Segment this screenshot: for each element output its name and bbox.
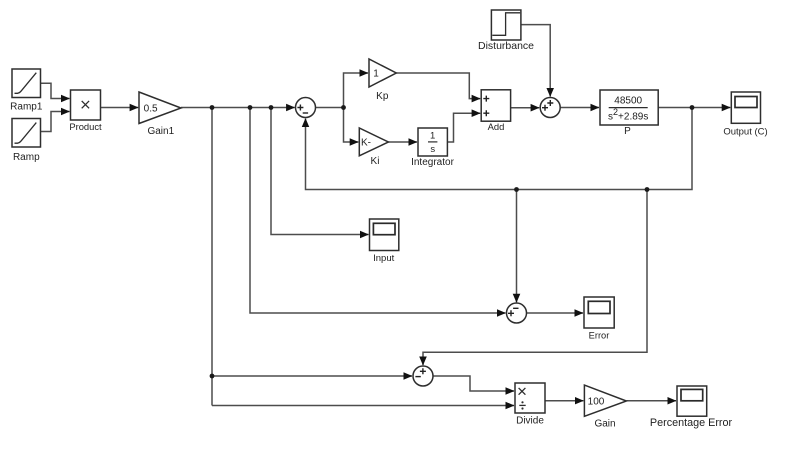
svg-text:Output (C): Output (C) bbox=[723, 126, 767, 137]
svg-text:Divide: Divide bbox=[516, 415, 544, 426]
svg-text:Product: Product bbox=[69, 121, 102, 132]
svg-text:Add: Add bbox=[488, 121, 505, 132]
svg-text:1: 1 bbox=[430, 131, 435, 142]
svg-text:Ki: Ki bbox=[371, 156, 380, 167]
svg-text:Percentage Error: Percentage Error bbox=[650, 417, 733, 429]
svg-text:Input: Input bbox=[373, 253, 394, 264]
svg-text:Kp: Kp bbox=[376, 91, 389, 102]
svg-text:Ramp: Ramp bbox=[13, 152, 40, 163]
svg-text:P: P bbox=[624, 126, 631, 137]
svg-text:Ramp1: Ramp1 bbox=[10, 101, 43, 112]
svg-text:Gain: Gain bbox=[594, 419, 615, 430]
svg-text:0.5: 0.5 bbox=[144, 103, 158, 114]
svg-text:48500: 48500 bbox=[614, 96, 642, 107]
svg-text:Integrator: Integrator bbox=[411, 157, 454, 168]
svg-text:K-: K- bbox=[361, 138, 371, 149]
svg-text:Error: Error bbox=[589, 331, 610, 341]
svg-text:Disturbance: Disturbance bbox=[478, 40, 534, 52]
svg-text:Gain1: Gain1 bbox=[147, 126, 174, 137]
svg-text:100: 100 bbox=[588, 397, 605, 408]
svg-text:1: 1 bbox=[373, 69, 379, 80]
svg-text:s: s bbox=[430, 144, 435, 155]
